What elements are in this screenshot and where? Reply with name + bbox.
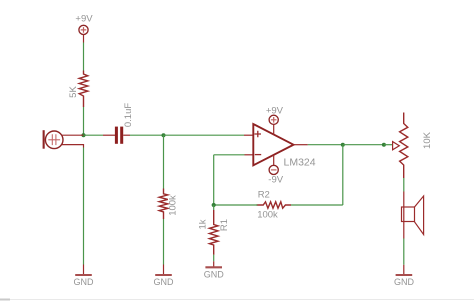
ground GND3 [204, 261, 225, 279]
resistor R1 1k [209, 210, 218, 255]
power symbol -9V opamp [268, 155, 283, 186]
wire feedback horizontal to R2 [291, 204, 343, 206]
ground GND4 [394, 265, 415, 287]
svg-text:1k: 1k [198, 219, 209, 229]
node B junction [162, 133, 166, 137]
wire C1 to node B [130, 134, 164, 136]
svg-text:LM324: LM324 [284, 157, 316, 169]
wire minus input horizontal [214, 154, 245, 156]
svg-text:R2: R2 [258, 190, 270, 201]
wire pot to speaker [403, 178, 405, 192]
microphone MIC1 [43, 130, 84, 149]
wire speaker to ground [403, 239, 405, 265]
pin stub opamp plus input [244, 134, 253, 136]
label R1 [219, 219, 230, 231]
svg-text:-9V: -9V [268, 174, 283, 185]
svg-text:0.1uF: 0.1uF [123, 103, 134, 127]
svg-text:R1: R1 [219, 219, 230, 231]
wire V1 to R3 [83, 43, 85, 71]
potentiometer VR1 10K [393, 113, 408, 179]
wire node E to R1 [213, 205, 215, 210]
svg-text:10K: 10K [422, 131, 433, 149]
label LM324 [284, 157, 316, 169]
value label 1k [198, 219, 209, 229]
value label 10K [422, 131, 433, 149]
label R2 [258, 190, 270, 201]
wire node D to wiper arrow [384, 144, 393, 146]
op-amp U1 triangle [253, 124, 293, 165]
wire node B to opamp plus input [164, 134, 245, 136]
node D junction wiper [382, 143, 386, 147]
wire MIC1 to ground [83, 148, 85, 265]
svg-text:GND: GND [204, 269, 225, 279]
value label 100k [167, 195, 178, 216]
power symbol +9V opamp [266, 106, 284, 135]
resistor R3 5K [79, 71, 88, 108]
wire minus input down [213, 155, 215, 205]
svg-text:100k: 100k [167, 195, 178, 216]
pin stub opamp output [294, 144, 308, 146]
wire feedback vertical [342, 145, 344, 205]
wire node C to pot node [343, 144, 384, 146]
svg-text:GND: GND [394, 277, 415, 287]
svg-text:100k: 100k [257, 209, 278, 220]
label +9V supply top [75, 13, 93, 24]
value label 100k R2 [257, 209, 278, 220]
svg-text:GND: GND [154, 277, 175, 287]
wire R2 to node E [214, 204, 258, 206]
svg-text:5K: 5K [68, 86, 79, 98]
resistor R2 100k feedback [257, 202, 292, 208]
wire node A to C1 [84, 134, 104, 136]
svg-text:GND: GND [74, 277, 95, 287]
node A junction [81, 133, 85, 137]
node C junction output [341, 143, 345, 147]
wire R1 to ground [213, 255, 215, 262]
speaker LS1 [402, 192, 424, 239]
value label 5K [68, 86, 79, 98]
wire R4 to ground [163, 219, 165, 265]
resistor R4 100k [159, 189, 168, 220]
ground GND1 [74, 265, 95, 288]
page edge line [0, 299, 474, 301]
ground GND2 [154, 265, 175, 288]
power symbol +9V V1 [79, 25, 88, 42]
capacitor C1 0.1uF [103, 127, 130, 144]
pin stub opamp minus input [245, 154, 254, 156]
wire R3 to node A [83, 107, 85, 135]
wire output to feedback node [308, 144, 343, 146]
wire node B down to R4 [163, 135, 165, 188]
value label 0.1uF [123, 103, 134, 127]
svg-text:+9V: +9V [75, 13, 93, 24]
node E junction [212, 203, 216, 207]
